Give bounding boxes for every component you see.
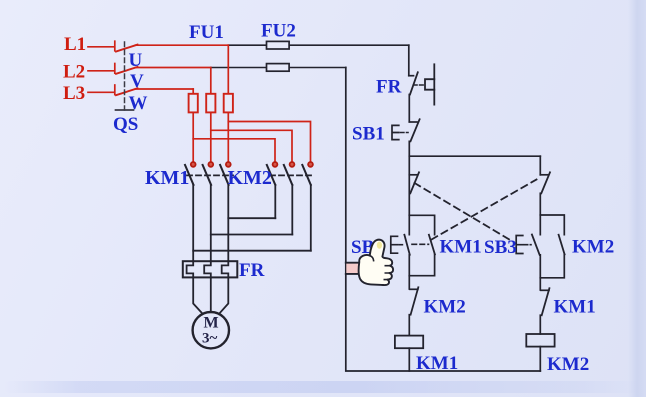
right parallel block frame [540,215,564,278]
FR contact seat tick [409,75,414,77]
KM2 main contact 2 blade [284,165,293,185]
hand hidden yellow glyph hint [377,242,382,249]
wire branch phase1 to KM2 contact 1 [193,139,275,162]
svg-text:W: W [129,93,148,114]
mechanical link dash SB3 (diagonal) [415,183,512,241]
SB2 NC contact blade [541,172,550,193]
wire L3 incoming [88,91,114,93]
wire to right block [539,193,541,215]
SB3 NO blade [532,235,540,255]
KM2 main contact 3 terminal circle [308,162,313,167]
FR heater element 3 [222,261,229,277]
wire KM1 out phase3 down to FR [227,185,229,261]
KM2 main contacts linkage dashes [270,174,313,176]
svg-text:KM1: KM1 [416,353,458,374]
KM1 main contact 3 terminal circle [226,162,231,167]
svg-text:FR: FR [239,260,265,281]
KM1 interlock seat tick [541,289,549,291]
SB3 NC contact (left branch top) seat tick [409,174,417,176]
hand glove [359,240,393,285]
wire L2 incoming [88,70,114,72]
wire drop L3 to FU1 fuse 1 [192,89,194,94]
SB2 NC contact (right branch top) seat tick [540,174,548,176]
motor lead 2 [210,277,212,312]
wire L2 to FU1 branch (red) [136,67,211,69]
wire L2 black segment to left control rail [211,67,346,69]
right branch top wire [539,156,541,175]
SB1 seat tick [409,121,417,123]
coil KM1 [395,336,423,349]
SB1 actuator dashes [401,132,409,134]
SB2 to KM1-aux link dashes [412,243,429,245]
svg-text:FR: FR [376,77,402,98]
crossover wire KM2 out3 to phase1 [193,250,311,252]
KM2 main contact 2 terminal circle [290,162,295,167]
FR trip symbol bracket [425,79,434,90]
wire SB1 to branch node [408,141,410,215]
fuse FU2-1 [267,41,290,49]
svg-text:L1: L1 [64,34,86,55]
wire L1 incoming [88,46,114,48]
KM1 main contact 1 terminal circle [191,162,196,167]
SB1 NC blade [411,119,420,141]
SB3 button actuator E [516,236,523,254]
KM1 main contact 2 terminal circle [208,162,213,167]
FR trip linkage dash [414,84,425,86]
wire drop L1 to FU1 fuse 3 [227,45,229,94]
wire block to KM2 interlock [408,276,410,289]
thermal relay FR box [183,261,238,277]
wire KM2 coil to bottom rail [539,347,541,371]
node left rail top / wire left rail [346,68,541,372]
svg-text:FU1: FU1 [189,22,224,43]
SB3 NC contact blade [410,172,419,193]
left parallel block frame [409,215,434,275]
SB3 actuator dashes [524,244,531,246]
wire drop L2 to FU1 fuse 2 [210,68,212,95]
svg-text:L2: L2 [63,62,85,83]
KM2 main contact 1 terminal circle [273,162,278,167]
wire KM2 out2 drop [291,185,293,235]
wire KM1 out phase1 down to FR [192,185,194,261]
QS linkage bottom bar [116,109,134,111]
crossover wire KM2 out2 to phase2 [211,234,292,236]
svg-text:KM2: KM2 [572,237,614,258]
wire fuse2 to KM1 contact 2 [210,112,212,162]
svg-text:FU2: FU2 [261,21,296,42]
svg-text:SB1: SB1 [352,124,385,145]
QS pole 2 blade [116,67,138,74]
SB2 left branch wire split [408,215,410,275]
wire L1 black segment to control [228,44,408,46]
motor M circle [193,312,229,348]
coil KM2 [526,334,554,347]
wire branch phase3 to KM2 contact 3 [228,122,310,163]
fuse FU2-2 [267,64,290,72]
KM1 interlock NC blade [542,288,550,315]
wire FR to SB1 [408,95,410,122]
svg-text:M: M [204,315,219,332]
wire L1 to FU1 branch (red) [136,44,229,46]
SB2 actuator dashes [399,244,405,246]
wire fuse3 to KM1 contact 3 [227,112,229,162]
FR NC contact blade [410,72,418,94]
SB2 NO blade [404,235,409,255]
mechanical link dash SB2 (diagonal) [432,180,537,240]
svg-text:U: U [129,50,143,71]
wire right block to KM1 interlock [539,278,541,290]
wire KM2 out1 drop [274,185,276,218]
svg-text:KM2: KM2 [228,167,272,189]
wire fuse1 to KM1 contact 1 [192,112,194,162]
wire KM2 out3 drop [310,185,312,251]
fuse FU1-2 [206,94,215,113]
wire to KM2 coil [539,315,541,334]
svg-text:3~: 3~ [202,331,218,347]
svg-text:QS: QS [113,114,138,135]
SB3 branch wire split [539,215,541,278]
wire branch phase2 to KM2 contact 2 [211,130,292,162]
KM2 aux (self-hold) blade [559,235,565,255]
wire control feed down from line 1 [408,45,410,75]
svg-text:V: V [130,71,144,92]
svg-text:KM2: KM2 [424,297,466,318]
wire to KM1 coil [408,315,410,336]
crossover wire KM2 out1 to phase3 [228,217,275,219]
wire node to right branch [409,155,540,157]
KM1 main contact 1 blade [185,165,194,185]
KM2 interlock NC blade [411,287,419,314]
fuse FU1-1 [189,94,198,113]
SB2 button actuator E [391,236,398,253]
KM2 main contact 1 blade [267,165,276,185]
KM1 main contacts linkage dashes [187,174,233,176]
QS pole 3 blade [116,88,138,95]
QS pole 2 fixed contact tick [114,64,116,74]
QS pole 1 blade [116,45,138,52]
svg-text:L3: L3 [63,83,85,104]
KM1 main contact 2 blade [203,165,212,185]
background right band [628,0,646,397]
svg-text:SB3: SB3 [484,237,517,258]
svg-text:KM2: KM2 [547,354,589,375]
svg-text:KM1: KM1 [145,167,189,189]
KM2 interlock seat tick [410,288,418,290]
motor lead 3 [219,277,228,314]
QS pole 3 fixed contact tick [114,85,116,95]
hand finger separation lines [384,266,390,280]
FR heater element 1 [187,261,194,277]
background bottom bar [4,381,642,393]
wire KM1 out phase2 down to FR [210,185,212,261]
hand thumbs-up icon [346,240,393,285]
svg-text:KM1: KM1 [554,297,596,318]
thumb inner line [370,256,374,261]
FR trip symbol vertical bar [433,64,435,104]
wire KM1 coil to bottom rail [408,348,410,371]
fuse FU1-3 [224,94,233,113]
SB1 button actuator E [392,125,399,139]
hand cuff [346,263,359,273]
QS pole 1 fixed contact tick [114,41,116,51]
FR heater element 2 [204,261,211,277]
QS linkage dashed line [124,42,126,110]
KM1 aux (self-hold) blade [429,235,435,255]
KM1 main contact 3 blade [220,165,229,185]
KM2 main contact 3 blade [302,165,311,185]
motor lead 1 [193,277,203,314]
wire L3 to FU1 fuse 1 (red) [136,88,194,90]
svg-text:KM1: KM1 [440,237,482,258]
